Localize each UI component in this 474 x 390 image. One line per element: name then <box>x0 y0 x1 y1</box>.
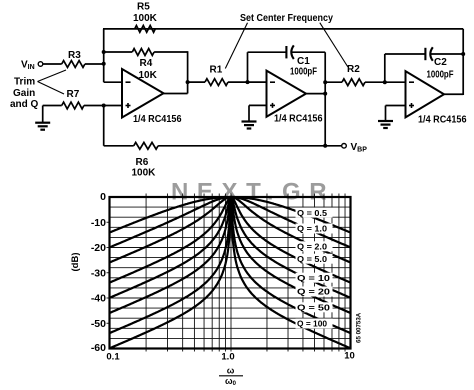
svg-text:R3: R3 <box>68 50 81 61</box>
svg-text:and Q: and Q <box>10 99 39 110</box>
node VBP output terminal <box>325 145 342 147</box>
label Q = 1.0 <box>296 224 333 234</box>
svg-text:Q = 20: Q = 20 <box>297 287 330 297</box>
label Q = 0.5 <box>296 208 333 218</box>
label Q = 20 <box>296 287 333 297</box>
curve Q=100 <box>110 197 351 348</box>
wire R3 to node A <box>85 63 104 65</box>
svg-text:1/4 RC4156: 1/4 RC4156 <box>133 114 182 125</box>
svg-text:Q = 100: Q = 100 <box>297 319 327 329</box>
svg-text:Q = 50: Q = 50 <box>297 303 330 313</box>
svg-text:-40: -40 <box>91 293 106 305</box>
ground G2 <box>242 120 257 122</box>
svg-text:Trim: Trim <box>14 77 35 88</box>
svg-text:0.1: 0.1 <box>106 352 120 363</box>
resistor R5 100K <box>135 26 156 33</box>
svg-text:-50: -50 <box>91 318 106 330</box>
wire R6 bottom bus <box>104 145 134 147</box>
svg-text:(dB): (dB) <box>70 253 81 272</box>
svg-text:R6: R6 <box>136 157 149 168</box>
wire op2 plus input to ground <box>249 104 267 106</box>
resistor R4 10K feedback <box>104 51 133 53</box>
node junction R4 tap <box>102 50 106 54</box>
curve Q=50 <box>110 197 351 333</box>
svg-text:1000pF: 1000pF <box>290 67 317 78</box>
resistor R6 100K <box>134 142 158 149</box>
capacitor C2 1000pF feedback loop <box>384 54 386 82</box>
curve Q=0.5 <box>110 197 351 233</box>
leader line to R1 <box>225 23 247 69</box>
wire op1 output <box>164 93 188 95</box>
resistor R2 <box>325 81 342 83</box>
svg-text:C1: C1 <box>297 56 310 67</box>
svg-text:10: 10 <box>344 350 355 361</box>
node R1 / C1 junction <box>246 80 250 84</box>
op-amp U2 1/4 RC4156 <box>267 71 307 117</box>
resistor R3 <box>62 61 85 68</box>
node A junction on inverting column <box>102 62 106 66</box>
ground G1 below R7 <box>42 106 44 123</box>
svg-text:0: 0 <box>100 191 106 203</box>
wire top feedback bus y=28.9 <box>103 28 463 30</box>
svg-text:R1: R1 <box>210 64 223 75</box>
resistor R1 <box>205 79 228 86</box>
svg-text:1.0: 1.0 <box>221 352 234 363</box>
node C2 right junction on feedback bus <box>461 52 465 56</box>
svg-text:R5: R5 <box>137 2 150 13</box>
label Q = 10 <box>296 273 333 283</box>
wire op3 output <box>444 93 463 95</box>
svg-text:Q = 10: Q = 10 <box>297 273 330 283</box>
label Q = 2.0 <box>296 241 333 251</box>
svg-text:-60: -60 <box>91 342 106 354</box>
svg-text:R7: R7 <box>67 89 80 100</box>
svg-text:65 00753A: 65 00753A <box>356 312 363 343</box>
curve Q=5 <box>110 197 351 283</box>
curve Q=10 <box>110 197 351 298</box>
svg-text:-30: -30 <box>91 268 106 280</box>
wire R4 down to op1 output <box>187 51 189 93</box>
svg-text:-20: -20 <box>91 242 106 254</box>
node R2 / C2 junction <box>383 80 387 84</box>
svg-text:-10: -10 <box>91 217 106 229</box>
ground G3 <box>378 120 393 122</box>
svg-text:Q = 1.0: Q = 1.0 <box>297 224 327 234</box>
label Q = 50 <box>296 302 333 312</box>
node op2 output junction <box>323 92 327 96</box>
wire VIN to R3 <box>43 63 62 65</box>
wire to R1 <box>188 81 205 83</box>
op-amp U3 1/4 RC4156 <box>406 71 445 117</box>
svg-text:1/4 RC4156: 1/4 RC4156 <box>274 114 323 125</box>
svg-text:Q = 0.5: Q = 0.5 <box>297 208 327 218</box>
svg-text:100K: 100K <box>132 168 157 179</box>
svg-text:R4: R4 <box>140 58 153 69</box>
svg-text:100K: 100K <box>133 13 158 24</box>
graph grid <box>107 194 351 352</box>
wire op2 output <box>306 93 325 95</box>
svg-text:Q = 5.0: Q = 5.0 <box>297 254 327 264</box>
svg-text:Q = 2.0: Q = 2.0 <box>297 242 327 252</box>
svg-text:Gain: Gain <box>13 88 35 99</box>
svg-text:1/4 RC4156: 1/4 RC4156 <box>418 115 467 126</box>
wire plus-input column down to R6 bus <box>102 104 106 108</box>
svg-text:ω0: ω0 <box>225 376 237 387</box>
svg-text:VBP: VBP <box>351 142 368 154</box>
label Q = 100 <box>296 319 333 329</box>
svg-text:C2: C2 <box>434 57 447 68</box>
label Q = 5.0 <box>296 254 333 264</box>
node VBP tap junction <box>323 144 327 148</box>
svg-text:VIN: VIN <box>21 60 35 72</box>
capacitor C1 1000pF feedback loop <box>247 52 249 82</box>
wire inverting column x=103.7 top wire down to minus input <box>103 29 105 82</box>
wire op3 plus input to ground <box>386 105 406 107</box>
leader line to R3 <box>38 70 67 82</box>
svg-text:Set Center Frequency: Set Center Frequency <box>240 13 333 24</box>
curve Q=2 <box>110 197 351 263</box>
op-amp U1 1/4 RC4156 <box>122 69 164 118</box>
leader line to R7 <box>38 82 65 95</box>
node op1 output / R1 junction <box>186 80 190 84</box>
curve Q=1 <box>110 197 351 247</box>
svg-text:1000pF: 1000pF <box>427 69 454 80</box>
leader line to R2 <box>320 23 348 67</box>
wire output column x=325.2 <box>324 52 326 146</box>
wire right column down to op3 output <box>462 29 464 95</box>
graph frame <box>110 197 351 349</box>
curve Q=20 <box>110 197 351 313</box>
svg-text:ω: ω <box>227 366 235 376</box>
svg-text:R2: R2 <box>347 64 360 75</box>
